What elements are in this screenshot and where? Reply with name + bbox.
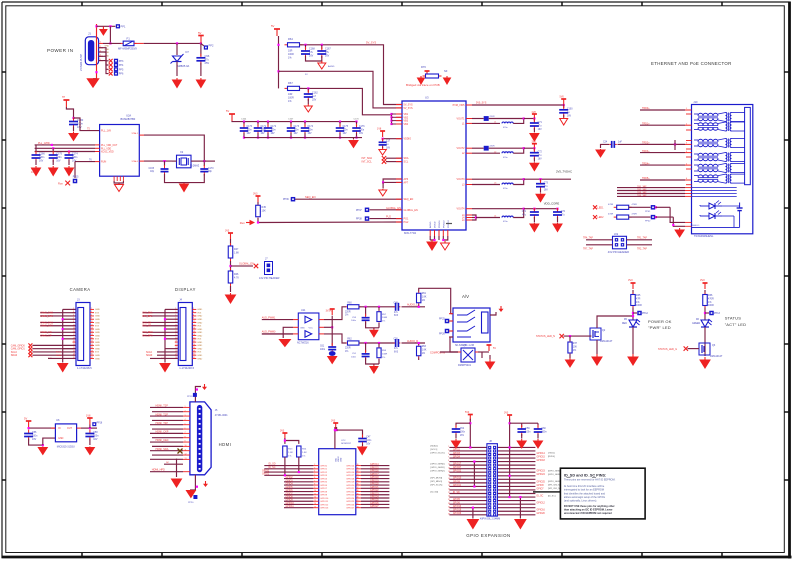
svg-text:C173: C173 bbox=[294, 126, 300, 128]
svg-text:R24: R24 bbox=[302, 449, 307, 451]
svg-text:1: 1 bbox=[448, 446, 449, 448]
svg-text:J10: J10 bbox=[693, 100, 698, 104]
svg-text:C165: C165 bbox=[149, 168, 155, 170]
svg-text:J19: J19 bbox=[614, 233, 619, 236]
svg-text:DGND: DGND bbox=[435, 221, 437, 228]
svg-text:C53: C53 bbox=[352, 317, 357, 319]
svg-text:GPIO23: GPIO23 bbox=[537, 471, 546, 473]
svg-text:8: 8 bbox=[185, 436, 186, 438]
svg-text:TR7_TAP: TR7_TAP bbox=[583, 247, 593, 250]
svg-text:GND: GND bbox=[197, 332, 202, 334]
svg-text:32: 32 bbox=[357, 471, 359, 473]
svg-text:NF: NF bbox=[444, 69, 448, 73]
svg-text:1%: 1% bbox=[382, 357, 385, 359]
svg-text:1%: 1% bbox=[422, 300, 425, 302]
svg-text:1%: 1% bbox=[382, 321, 385, 323]
svg-text:5V_SYS: 5V_SYS bbox=[404, 107, 413, 110]
svg-text:GPIO14: GPIO14 bbox=[537, 453, 546, 455]
svg-text:CAM1_CP: CAM1_CP bbox=[40, 334, 52, 337]
svg-text:R64: R64 bbox=[288, 37, 293, 41]
svg-text:U3: U3 bbox=[425, 96, 429, 100]
svg-text:19.2MHZ: 19.2MHZ bbox=[190, 165, 200, 167]
svg-text:GND: GND bbox=[95, 329, 100, 331]
svg-text:5V: 5V bbox=[271, 24, 275, 28]
svg-text:GPIO25: GPIO25 bbox=[346, 501, 355, 503]
svg-text:1-1734248-5: 1-1734248-5 bbox=[77, 366, 92, 370]
svg-text:C170: C170 bbox=[354, 119, 360, 121]
svg-text:9: 9 bbox=[448, 460, 449, 462]
svg-text:3V3: 3V3 bbox=[95, 326, 100, 328]
svg-text:C71: C71 bbox=[538, 122, 543, 124]
svg-text:BCM2837: BCM2837 bbox=[341, 443, 352, 445]
svg-text:31: 31 bbox=[448, 499, 450, 501]
svg-text:4X2 PIN HEADER: 4X2 PIN HEADER bbox=[608, 250, 629, 254]
svg-text:3: 3 bbox=[185, 415, 186, 417]
svg-text:470R: 470R bbox=[608, 214, 614, 216]
svg-text:U2A: U2A bbox=[126, 114, 131, 118]
svg-text:C176: C176 bbox=[359, 126, 365, 128]
svg-text:1.8K: 1.8K bbox=[288, 452, 293, 454]
svg-text:[TXD0]: [TXD0] bbox=[548, 453, 555, 455]
svg-text:C61: C61 bbox=[320, 346, 325, 348]
svg-text:GND: GND bbox=[95, 322, 100, 324]
svg-text:13: 13 bbox=[314, 500, 316, 502]
svg-text:GND: GND bbox=[197, 345, 202, 347]
svg-text:47u: 47u bbox=[394, 348, 399, 350]
svg-text:36: 36 bbox=[357, 484, 359, 486]
svg-text:R60: R60 bbox=[347, 303, 352, 305]
svg-text:C24: C24 bbox=[603, 141, 608, 143]
svg-text:ETHERNET AND PoE CONNECTOR: ETHERNET AND PoE CONNECTOR bbox=[651, 61, 732, 66]
svg-text:GND: GND bbox=[95, 332, 100, 334]
svg-text:R63: R63 bbox=[422, 346, 427, 348]
svg-text:R76: R76 bbox=[421, 65, 426, 69]
svg-text:VOUT2: VOUT2 bbox=[457, 147, 466, 150]
svg-text:[GPIO_GEN2]: [GPIO_GEN2] bbox=[431, 470, 445, 472]
svg-text:J1: J1 bbox=[88, 32, 91, 36]
svg-text:R61: R61 bbox=[422, 293, 427, 295]
svg-text:1.8K: 1.8K bbox=[302, 452, 307, 454]
svg-text:40PIN DIL 2.54MM: 40PIN DIL 2.54MM bbox=[480, 517, 500, 520]
svg-text:GPIO18: GPIO18 bbox=[346, 478, 355, 480]
svg-text:GPIO6: GPIO6 bbox=[286, 490, 294, 492]
svg-text:AUDIO_R: AUDIO_R bbox=[407, 340, 418, 343]
svg-text:GPIO0: GPIO0 bbox=[262, 471, 270, 473]
svg-text:GPIO11: GPIO11 bbox=[453, 485, 462, 487]
svg-text:47u: 47u bbox=[205, 57, 210, 61]
svg-text:29: 29 bbox=[448, 496, 450, 498]
svg-text:16V: 16V bbox=[32, 438, 37, 441]
svg-text:100n: 100n bbox=[343, 129, 349, 131]
svg-text:0.9V: 0.9V bbox=[31, 169, 36, 171]
svg-text:GND: GND bbox=[341, 457, 343, 462]
svg-text:GPIO17: GPIO17 bbox=[453, 464, 462, 466]
svg-text:GPIO21: GPIO21 bbox=[346, 488, 355, 490]
svg-text:470R: 470R bbox=[632, 214, 638, 216]
svg-text:GPIO23: GPIO23 bbox=[346, 495, 355, 497]
svg-text:1V8: 1V8 bbox=[531, 111, 536, 114]
svg-text:3V3: 3V3 bbox=[197, 326, 202, 328]
svg-text:C71: C71 bbox=[522, 211, 527, 213]
svg-text:3V3: 3V3 bbox=[197, 339, 202, 341]
svg-text:1.8K: 1.8K bbox=[422, 349, 427, 351]
svg-text:HDMI_CKP: HDMI_CKP bbox=[156, 431, 169, 434]
svg-text:GPIO7: GPIO7 bbox=[320, 488, 327, 490]
svg-text:TR2_TAP: TR2_TAP bbox=[637, 247, 647, 250]
svg-text:GPIO18: GPIO18 bbox=[537, 460, 546, 462]
svg-text:GPIO27: GPIO27 bbox=[370, 505, 379, 508]
svg-text:100R: 100R bbox=[708, 304, 714, 307]
svg-text:16V: 16V bbox=[567, 115, 572, 117]
svg-text:C72: C72 bbox=[538, 152, 543, 154]
svg-text:16V: 16V bbox=[359, 133, 364, 135]
svg-text:1-1734248-5: 1-1734248-5 bbox=[179, 366, 194, 370]
svg-text:SCL: SCL bbox=[404, 161, 409, 164]
svg-text:PP41: PP41 bbox=[645, 211, 651, 213]
svg-text:5V: 5V bbox=[493, 347, 496, 350]
svg-text:D7: D7 bbox=[186, 50, 190, 54]
svg-text:DMG1012T: DMG1012T bbox=[710, 355, 723, 358]
svg-text:5V: 5V bbox=[198, 31, 202, 35]
svg-text:1%: 1% bbox=[345, 315, 348, 317]
svg-text:[GPIO_GEN0]: [GPIO_GEN0] bbox=[431, 463, 445, 465]
svg-text:100R: 100R bbox=[382, 353, 388, 355]
svg-text:39: 39 bbox=[357, 493, 359, 495]
svg-text:SDA0: SDA0 bbox=[11, 354, 18, 357]
svg-text:1.8K: 1.8K bbox=[422, 296, 427, 298]
svg-text:INT_SCL: INT_SCL bbox=[362, 161, 373, 164]
svg-text:7: 7 bbox=[185, 432, 186, 434]
svg-text:J4: J4 bbox=[179, 299, 182, 302]
svg-text:37: 37 bbox=[448, 510, 450, 512]
svg-text:GPIO20: GPIO20 bbox=[346, 485, 355, 487]
svg-text:3V3A: 3V3A bbox=[326, 310, 332, 313]
svg-text:GPIO1: GPIO1 bbox=[320, 469, 327, 471]
svg-text:GPIO3: GPIO3 bbox=[320, 475, 327, 477]
svg-text:"ACT" LED: "ACT" LED bbox=[725, 322, 747, 327]
svg-text:14: 14 bbox=[314, 503, 316, 505]
svg-text:PP1: PP1 bbox=[121, 25, 126, 29]
svg-text:31: 31 bbox=[357, 467, 359, 469]
svg-text:GPIO4: GPIO4 bbox=[320, 478, 327, 480]
svg-text:F1: F1 bbox=[127, 37, 131, 41]
svg-text:3V3: 3V3 bbox=[700, 278, 705, 282]
svg-text:13: 13 bbox=[185, 458, 187, 460]
svg-text:C59: C59 bbox=[525, 428, 530, 430]
svg-text:R37: R37 bbox=[573, 343, 578, 345]
svg-text:D6: D6 bbox=[696, 319, 700, 321]
svg-text:HDMI_T0P: HDMI_T0P bbox=[156, 422, 169, 425]
svg-text:X2: X2 bbox=[180, 150, 184, 154]
svg-text:1%: 1% bbox=[302, 455, 305, 457]
svg-text:GND: GND bbox=[95, 342, 100, 344]
svg-text:GPIO7: GPIO7 bbox=[286, 493, 294, 495]
svg-text:16V: 16V bbox=[366, 443, 371, 445]
svg-text:1.8K: 1.8K bbox=[234, 251, 239, 254]
svg-text:C170: C170 bbox=[208, 168, 214, 170]
svg-text:J8: J8 bbox=[489, 440, 492, 443]
svg-text:MF-MSMF250/X: MF-MSMF250/X bbox=[118, 47, 137, 51]
svg-text:10K: 10K bbox=[262, 209, 267, 212]
svg-text:17: 17 bbox=[448, 474, 450, 476]
svg-text:PG2: PG2 bbox=[404, 221, 409, 224]
svg-text:5V0: 5V0 bbox=[560, 96, 565, 99]
svg-text:GREEN: GREEN bbox=[692, 323, 701, 325]
svg-text:100n: 100n bbox=[271, 129, 277, 131]
svg-text:LED2: LED2 bbox=[598, 216, 605, 219]
svg-text:GPIO10: GPIO10 bbox=[286, 503, 295, 505]
svg-text:R58: R58 bbox=[382, 350, 387, 352]
svg-text:PP12: PP12 bbox=[642, 312, 649, 315]
svg-text:GND: GND bbox=[95, 358, 100, 360]
svg-text:16V: 16V bbox=[460, 435, 465, 437]
svg-text:1%: 1% bbox=[422, 353, 425, 355]
svg-text:100n: 100n bbox=[247, 129, 253, 131]
svg-text:PP25: PP25 bbox=[439, 319, 445, 321]
svg-text:16V: 16V bbox=[538, 159, 543, 161]
svg-text:PGND1: PGND1 bbox=[439, 220, 441, 228]
svg-text:GND: GND bbox=[95, 355, 100, 357]
svg-text:10: 10 bbox=[314, 490, 316, 492]
svg-text:SEQ_EN: SEQ_EN bbox=[404, 198, 414, 201]
svg-text:3V3: 3V3 bbox=[197, 312, 202, 314]
svg-text:GPIO17: GPIO17 bbox=[346, 475, 355, 477]
svg-text:PLL_1V8: PLL_1V8 bbox=[101, 130, 112, 133]
svg-text:3V3: 3V3 bbox=[331, 420, 336, 423]
svg-text:PP3: PP3 bbox=[119, 60, 124, 63]
svg-text:PP6: PP6 bbox=[119, 73, 124, 76]
svg-text:33: 33 bbox=[357, 474, 359, 476]
svg-text:GPIO26: GPIO26 bbox=[346, 504, 355, 506]
svg-text:C167: C167 bbox=[288, 119, 294, 121]
svg-text:PP36: PP36 bbox=[283, 199, 289, 201]
svg-text:5: 5 bbox=[448, 453, 449, 455]
svg-text:23: 23 bbox=[175, 344, 177, 346]
svg-text:470R: 470R bbox=[608, 204, 614, 206]
svg-text:At boot time this I2C interfac: At boot time this I2C interface will be bbox=[564, 485, 605, 488]
svg-text:3V3: 3V3 bbox=[197, 352, 202, 354]
svg-text:3: 3 bbox=[448, 450, 449, 452]
svg-text:47u: 47u bbox=[538, 155, 543, 157]
svg-text:4: 4 bbox=[185, 419, 186, 421]
svg-text:DSI_DP1: DSI_DP1 bbox=[143, 315, 154, 318]
svg-text:100n: 100n bbox=[366, 440, 372, 442]
svg-text:100n: 100n bbox=[542, 431, 548, 433]
svg-text:IN: IN bbox=[58, 427, 61, 430]
svg-text:GPIO3: GPIO3 bbox=[286, 480, 294, 482]
svg-text:[SCL1]: [SCL1] bbox=[431, 449, 438, 451]
svg-text:16V: 16V bbox=[247, 133, 252, 135]
svg-text:PVM_VIN5: PVM_VIN5 bbox=[453, 104, 465, 107]
svg-text:GLOBAL_EN: GLOBAL_EN bbox=[239, 263, 254, 266]
svg-text:27: 27 bbox=[448, 492, 450, 494]
svg-text:R62: R62 bbox=[347, 339, 352, 341]
svg-text:DSI_DP0: DSI_DP0 bbox=[143, 334, 154, 337]
svg-text:2: 2 bbox=[314, 464, 315, 466]
svg-text:21: 21 bbox=[448, 481, 450, 483]
svg-text:POWER OK: POWER OK bbox=[648, 319, 672, 324]
svg-text:DMMT5401: DMMT5401 bbox=[458, 364, 472, 367]
svg-text:RED: RED bbox=[622, 323, 627, 325]
svg-text:GPIO5: GPIO5 bbox=[286, 487, 294, 489]
svg-text:7: 7 bbox=[314, 480, 315, 482]
svg-text:ID_SC: ID_SC bbox=[268, 466, 275, 469]
svg-text:1%: 1% bbox=[288, 455, 291, 457]
svg-text:PGND2: PGND2 bbox=[443, 220, 445, 228]
svg-text:HDMI_T2P: HDMI_T2P bbox=[156, 405, 169, 408]
svg-text:1: 1 bbox=[185, 406, 186, 408]
svg-text:PP37: PP37 bbox=[356, 210, 362, 212]
svg-text:J7: J7 bbox=[265, 258, 268, 261]
svg-text:GPIO12: GPIO12 bbox=[320, 504, 329, 506]
svg-text:TR4_TAP: TR4_TAP bbox=[637, 194, 647, 197]
svg-text:RUN: RUN bbox=[101, 161, 106, 164]
svg-text:25: 25 bbox=[448, 489, 450, 491]
svg-text:4.7K: 4.7K bbox=[234, 276, 239, 279]
svg-text:DISPLAY: DISPLAY bbox=[175, 287, 196, 292]
svg-text:AUDIO_L: AUDIO_L bbox=[407, 304, 418, 307]
svg-text:16V: 16V bbox=[294, 133, 299, 135]
svg-text:XTAL1: XTAL1 bbox=[131, 132, 138, 135]
svg-text:PU2: PU2 bbox=[386, 216, 391, 219]
svg-text:C47: C47 bbox=[366, 437, 371, 439]
svg-text:that identifies the attached b: that identifies the attached board and bbox=[564, 492, 606, 495]
svg-text:GND: GND bbox=[300, 328, 305, 330]
svg-text:3: 3 bbox=[314, 467, 315, 469]
svg-text:18p: 18p bbox=[150, 171, 155, 173]
svg-text:5V: 5V bbox=[24, 417, 27, 421]
svg-text:C73: C73 bbox=[544, 183, 549, 185]
svg-text:GND: GND bbox=[95, 319, 100, 321]
svg-text:Bridged via trace on PCB: Bridged via trace on PCB bbox=[406, 83, 440, 87]
svg-text:VOUT3: VOUT3 bbox=[457, 178, 466, 181]
svg-text:GPIO19: GPIO19 bbox=[453, 510, 462, 512]
svg-text:6V3: 6V3 bbox=[394, 315, 399, 317]
svg-text:STATUS: STATUS bbox=[725, 316, 742, 321]
svg-text:R57: R57 bbox=[382, 314, 387, 316]
svg-text:220R: 220R bbox=[345, 348, 351, 350]
svg-text:[RXD0]: [RXD0] bbox=[548, 456, 555, 458]
svg-text:Run: Run bbox=[58, 182, 63, 186]
svg-text:33: 33 bbox=[448, 503, 450, 505]
svg-text:TR1_TAP: TR1_TAP bbox=[637, 236, 647, 239]
svg-text:GND: GND bbox=[197, 358, 202, 360]
svg-text:5V: 5V bbox=[305, 74, 308, 76]
svg-text:47u: 47u bbox=[561, 214, 566, 216]
svg-text:J5: J5 bbox=[215, 409, 218, 412]
svg-text:SHELL1: SHELL1 bbox=[692, 225, 700, 227]
svg-text:1V8: 1V8 bbox=[31, 172, 36, 174]
svg-text:GPIO16: GPIO16 bbox=[537, 510, 546, 512]
svg-text:VOUT4: VOUT4 bbox=[457, 208, 466, 211]
svg-text:470n: 470n bbox=[503, 157, 508, 159]
svg-text:TRD3+: TRD3+ bbox=[642, 150, 650, 153]
svg-text:8: 8 bbox=[314, 484, 315, 486]
svg-text:GPIO15: GPIO15 bbox=[346, 469, 355, 471]
svg-text:C164: C164 bbox=[241, 119, 247, 121]
svg-text:3V3: 3V3 bbox=[280, 430, 285, 433]
svg-text:GND: GND bbox=[95, 348, 100, 350]
svg-text:AP7: AP7 bbox=[404, 181, 409, 184]
svg-text:TR2_TAP: TR2_TAP bbox=[637, 188, 647, 191]
svg-text:3V3: 3V3 bbox=[253, 193, 258, 196]
svg-text:PLL_VDD: PLL_VDD bbox=[101, 148, 112, 150]
svg-text:STATUS_LED_G: STATUS_LED_G bbox=[658, 348, 677, 351]
svg-text:PP4: PP4 bbox=[119, 64, 124, 67]
svg-text:XOSC_VDD: XOSC_VDD bbox=[101, 152, 114, 154]
svg-text:100R: 100R bbox=[636, 304, 642, 307]
svg-text:[GPIO_GEN1]: [GPIO_GEN1] bbox=[431, 467, 445, 469]
svg-text:41: 41 bbox=[357, 500, 359, 502]
svg-text:GND: GND bbox=[197, 355, 202, 357]
svg-text:GPIO11: GPIO11 bbox=[286, 506, 295, 508]
svg-text:38: 38 bbox=[357, 490, 359, 492]
svg-text:C175: C175 bbox=[343, 126, 349, 128]
svg-text:[GPIO_GEN6]: [GPIO_GEN6] bbox=[548, 481, 562, 483]
svg-text:GND: GND bbox=[95, 316, 100, 318]
svg-text:9: 9 bbox=[314, 487, 315, 489]
svg-text:TRD5+: TRD5+ bbox=[642, 177, 650, 180]
svg-text:GPIO6: GPIO6 bbox=[320, 485, 327, 487]
svg-text:GND: GND bbox=[95, 335, 100, 337]
svg-text:5: 5 bbox=[314, 474, 315, 476]
svg-text:SEQ_EN: SEQ_EN bbox=[305, 195, 316, 199]
svg-text:GPIO27: GPIO27 bbox=[453, 467, 462, 469]
svg-text:PP26: PP26 bbox=[439, 334, 445, 336]
svg-text:GND: GND bbox=[197, 309, 202, 311]
svg-text:100n: 100n bbox=[460, 431, 466, 433]
svg-text:GPIO19: GPIO19 bbox=[346, 482, 355, 484]
svg-text:SMBJ5.0A: SMBJ5.0A bbox=[177, 64, 190, 68]
svg-text:C72: C72 bbox=[561, 211, 566, 213]
svg-text:35: 35 bbox=[448, 506, 450, 508]
svg-text:C17: C17 bbox=[386, 141, 391, 143]
svg-text:GPIO5: GPIO5 bbox=[453, 499, 461, 501]
svg-text:GND: GND bbox=[95, 309, 100, 311]
svg-text:220R: 220R bbox=[490, 146, 495, 148]
svg-text:GND: GND bbox=[197, 342, 202, 344]
svg-text:GPIO26: GPIO26 bbox=[453, 513, 462, 515]
svg-text:GND: GND bbox=[197, 316, 202, 318]
svg-text:16V: 16V bbox=[325, 54, 330, 57]
svg-text:16V: 16V bbox=[309, 54, 314, 57]
svg-text:C170: C170 bbox=[247, 126, 253, 128]
svg-text:AUD_PWM0: AUD_PWM0 bbox=[262, 331, 276, 334]
svg-text:15: 15 bbox=[314, 506, 316, 508]
svg-text:100n: 100n bbox=[359, 129, 365, 131]
svg-text:TRD1+: TRD1+ bbox=[642, 122, 650, 125]
svg-text:21: 21 bbox=[175, 341, 177, 343]
svg-text:34: 34 bbox=[357, 477, 359, 479]
svg-text:ID_SD: ID_SD bbox=[453, 492, 460, 494]
svg-text:R23: R23 bbox=[288, 449, 293, 451]
svg-text:GPIO9: GPIO9 bbox=[453, 481, 461, 483]
svg-text:Q3: Q3 bbox=[712, 344, 716, 347]
svg-text:GND: GND bbox=[197, 319, 202, 321]
svg-text:GPIO12: GPIO12 bbox=[537, 503, 546, 505]
svg-text:[GPIO_GCLK]: [GPIO_GCLK] bbox=[431, 453, 445, 455]
svg-text:25V: 25V bbox=[312, 98, 317, 101]
svg-text:220R: 220R bbox=[490, 116, 495, 118]
svg-text:These pins are reserved for HA: These pins are reserved for HAT ID EEPRO… bbox=[564, 479, 616, 482]
svg-text:GPIO13: GPIO13 bbox=[320, 508, 329, 510]
svg-text:C50: C50 bbox=[394, 339, 399, 341]
svg-text:1nF: 1nF bbox=[618, 141, 623, 143]
svg-text:GPIO3: GPIO3 bbox=[453, 453, 461, 455]
svg-text:42: 42 bbox=[357, 503, 359, 505]
svg-text:allows automagic setup of the: allows automagic setup of the GPIOs bbox=[564, 496, 606, 499]
svg-text:PP13: PP13 bbox=[714, 312, 721, 315]
